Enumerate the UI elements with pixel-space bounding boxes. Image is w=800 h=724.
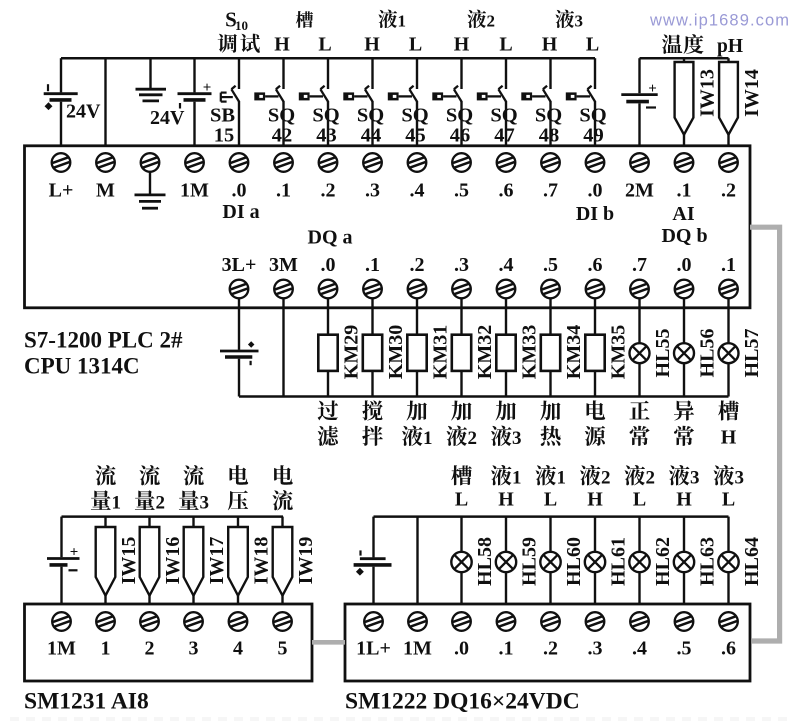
pin label 3 (SM1231) xyxy=(189,638,199,660)
label SQ 42 xyxy=(268,105,295,147)
battery AI sensor supply (2M column) xyxy=(621,58,657,146)
lamp HL58 xyxy=(451,517,471,604)
svg-text:.4: .4 xyxy=(632,638,647,660)
wire M column xyxy=(104,58,106,146)
label S7-1200 PLC 2# xyxy=(24,328,183,353)
pin label .3 (SM1222) xyxy=(588,638,603,660)
pin label .4 (row2) xyxy=(499,254,514,276)
svg-text:H: H xyxy=(587,489,603,511)
svg-text:CPU 1314C: CPU 1314C xyxy=(24,354,140,379)
svg-text:www.ip1689.com: www.ip1689.com xyxy=(649,12,790,30)
svg-text:.7: .7 xyxy=(632,254,647,276)
svg-text:HL62: HL62 xyxy=(652,537,674,586)
svg-text:IW17: IW17 xyxy=(206,537,228,585)
contactor coil KM31 xyxy=(407,298,426,396)
battery 24V (left) xyxy=(44,58,78,146)
svg-text:H: H xyxy=(498,489,514,511)
label DQ b xyxy=(661,225,707,247)
label DI a xyxy=(222,201,259,223)
svg-text:47: 47 xyxy=(494,125,515,147)
svg-text:2: 2 xyxy=(467,428,477,449)
label 24V (left battery) xyxy=(66,101,101,123)
terminal .5 (row1) xyxy=(452,153,471,172)
svg-text:.7: .7 xyxy=(543,180,558,202)
svg-text:DQ a: DQ a xyxy=(308,227,353,249)
svg-text:2: 2 xyxy=(645,467,655,488)
level label 槽L xyxy=(451,465,472,510)
pin label .6 xyxy=(499,180,514,202)
svg-text:1: 1 xyxy=(512,467,522,488)
terminal .3 (row1) xyxy=(363,153,382,172)
label IW19 xyxy=(295,537,317,585)
svg-text:.1: .1 xyxy=(499,638,514,660)
contactor coil KM29 xyxy=(318,298,337,396)
svg-text:H: H xyxy=(274,34,290,56)
limit switch SQ49 xyxy=(566,58,595,146)
svg-text:HL60: HL60 xyxy=(563,537,585,586)
function label 搅拌 xyxy=(362,400,383,446)
svg-text:48: 48 xyxy=(539,125,560,147)
wire 1M column (SM1222) xyxy=(416,517,418,604)
svg-text:45: 45 xyxy=(405,125,426,147)
level label 液2H xyxy=(580,465,611,511)
contactor coil KM32 xyxy=(452,298,471,396)
svg-text:1M: 1M xyxy=(180,180,209,202)
svg-text:.4: .4 xyxy=(410,180,425,202)
label HL61 xyxy=(608,537,630,586)
terminal 1M (SM1231) xyxy=(52,612,71,631)
svg-text:SQ: SQ xyxy=(312,105,339,127)
function label 加热 xyxy=(540,401,561,446)
svg-text:SM1231 AI8: SM1231 AI8 xyxy=(24,689,149,715)
pin label .0 xyxy=(232,180,247,202)
label DI b xyxy=(576,203,614,225)
svg-text:.2: .2 xyxy=(543,638,558,660)
svg-text:H: H xyxy=(542,34,558,56)
svg-text:.5: .5 xyxy=(677,638,692,660)
svg-text:.0: .0 xyxy=(232,180,247,202)
sensor IW19 xyxy=(273,517,293,604)
sensor IW17 xyxy=(184,517,204,604)
terminal .7 (row1) xyxy=(541,153,560,172)
svg-text:1L+: 1L+ xyxy=(356,638,391,660)
pin label .0 (row2) xyxy=(321,254,336,276)
svg-text:SQ: SQ xyxy=(268,105,295,127)
contactor coil KM33 xyxy=(496,298,515,396)
battery DQ supply (3L+ column) xyxy=(220,298,259,396)
svg-text:.6: .6 xyxy=(499,180,514,202)
lamp HL55 xyxy=(630,298,650,396)
svg-text:1: 1 xyxy=(111,492,121,513)
svg-text:DQ b: DQ b xyxy=(661,225,707,247)
svg-text:KM35: KM35 xyxy=(608,325,630,379)
svg-text:HL58: HL58 xyxy=(474,537,496,586)
svg-text:HL57: HL57 xyxy=(741,329,763,378)
svg-text:42: 42 xyxy=(272,125,293,147)
label KM32 xyxy=(474,325,496,379)
svg-text:IW13: IW13 xyxy=(697,69,719,117)
svg-text:SQ: SQ xyxy=(490,105,517,127)
svg-text:3: 3 xyxy=(734,467,744,488)
pin label .4 xyxy=(410,180,425,202)
svg-text:H: H xyxy=(721,426,737,448)
pin label .7 xyxy=(543,180,558,202)
sensor IW15 xyxy=(96,517,116,604)
label 液1 H L xyxy=(364,10,422,56)
label 电流 xyxy=(272,465,292,510)
function label 电源 xyxy=(585,400,605,446)
svg-text:HL59: HL59 xyxy=(519,537,541,586)
pin label 1M (SM1231) xyxy=(47,638,76,660)
pin label .5 (SM1222) xyxy=(677,638,692,660)
label 流量1 xyxy=(91,465,121,513)
svg-text:IW18: IW18 xyxy=(251,537,273,585)
terminal .0 (row1) xyxy=(230,153,249,172)
svg-text:.3: .3 xyxy=(588,638,603,660)
pin label .1 xyxy=(677,180,692,202)
label 液2 H L xyxy=(454,10,513,56)
svg-text:.1: .1 xyxy=(276,180,291,202)
label SM1231 AI8 xyxy=(24,689,149,715)
pin label .1 (row2) xyxy=(721,254,736,276)
svg-text:3: 3 xyxy=(199,492,209,513)
battery AI supply (SM1231) xyxy=(47,517,80,604)
svg-text:S7-1200 PLC 2#: S7-1200 PLC 2# xyxy=(24,328,183,353)
svg-text:HL61: HL61 xyxy=(608,537,630,586)
sensor IW14 (pH) xyxy=(719,58,738,146)
ground symbol (PE terminal) xyxy=(135,172,166,208)
terminal 1L+ (SM1222) xyxy=(364,612,383,631)
battery 24V (middle, earth-style symbol) xyxy=(136,58,167,101)
svg-text:KM30: KM30 xyxy=(385,325,407,379)
svg-text:L: L xyxy=(499,34,512,56)
svg-text:3: 3 xyxy=(690,467,700,488)
wire top supply bus xyxy=(61,57,595,60)
label 温度 pH xyxy=(662,34,743,57)
label DQ a xyxy=(308,227,353,249)
lamp HL62 xyxy=(629,517,649,604)
svg-text:.5: .5 xyxy=(543,254,558,276)
wire sensor supply bus xyxy=(640,57,729,60)
label SQ 47 xyxy=(490,105,517,147)
svg-text:1M: 1M xyxy=(47,638,76,660)
svg-text:HL56: HL56 xyxy=(697,329,719,378)
terminal 1M (row1) xyxy=(185,153,204,172)
terminal 2M (row1) xyxy=(630,153,649,172)
svg-text:L: L xyxy=(722,489,735,511)
svg-text:L: L xyxy=(586,34,599,56)
level label 液3L xyxy=(713,465,743,511)
label 电压 xyxy=(228,465,248,510)
label IW17 xyxy=(206,537,228,585)
svg-text:L: L xyxy=(409,34,422,56)
terminal .7 (row2) xyxy=(630,280,649,299)
label IW15 xyxy=(118,537,140,585)
lamp HL56 xyxy=(674,298,694,396)
limit switch SQ48 xyxy=(521,58,550,146)
svg-text:+: + xyxy=(70,545,79,561)
battery lamp supply (SM1222) xyxy=(354,517,392,604)
wire 3M to bus xyxy=(282,298,284,396)
label IW18 xyxy=(251,537,273,585)
pin label .0 xyxy=(588,180,603,202)
svg-text:HL55: HL55 xyxy=(652,329,674,378)
terminal .1 (row1) xyxy=(675,153,694,172)
pin label .2 (row2) xyxy=(410,254,425,276)
svg-text:3L+: 3L+ xyxy=(222,254,257,276)
svg-text:SM1222 DQ16×24VDC: SM1222 DQ16×24VDC xyxy=(345,689,580,715)
cable SM1231 to SM1222 (gray) xyxy=(312,640,345,645)
svg-text:KM32: KM32 xyxy=(474,325,496,379)
svg-text:.1: .1 xyxy=(721,254,736,276)
level label 液2L xyxy=(624,465,654,511)
terminal M (row1) xyxy=(96,153,115,172)
label IW16 xyxy=(162,537,184,585)
svg-text:.6: .6 xyxy=(588,254,603,276)
label HL60 xyxy=(563,537,585,586)
pin label .2 xyxy=(321,180,336,202)
svg-text:1M: 1M xyxy=(403,638,432,660)
pin label .5 (row2) xyxy=(543,254,558,276)
terminal 2 (SM1231) xyxy=(140,612,159,631)
label HL59 xyxy=(519,537,541,586)
label SQ 43 xyxy=(312,105,339,147)
svg-text:.5: .5 xyxy=(454,180,469,202)
terminal .1 (SM1222) xyxy=(497,612,516,631)
svg-text:HL64: HL64 xyxy=(741,537,763,586)
svg-text:pH: pH xyxy=(717,36,743,57)
label HL63 xyxy=(697,537,719,586)
label KM29 xyxy=(341,325,363,379)
svg-text:1: 1 xyxy=(556,467,566,488)
svg-text:KM29: KM29 xyxy=(341,325,363,379)
svg-text:24V: 24V xyxy=(150,107,185,129)
label HL62 xyxy=(652,537,674,586)
pin label 1L+ (SM1222) xyxy=(356,638,391,660)
level label 液1L xyxy=(535,465,565,511)
svg-text:2: 2 xyxy=(487,11,496,30)
pin label .1 (SM1222) xyxy=(499,638,514,660)
function label 加液1 xyxy=(402,401,433,449)
svg-text:.6: .6 xyxy=(721,638,736,660)
function label 正常 xyxy=(629,401,649,446)
limit switch SQ43 xyxy=(299,58,328,146)
label 流量2 xyxy=(135,465,165,513)
pin label .1 xyxy=(276,180,291,202)
lamp HL64 xyxy=(718,517,738,604)
terminal .5 (row2) xyxy=(541,280,560,299)
svg-text:+: + xyxy=(203,80,212,96)
pin label 2M xyxy=(625,180,654,202)
terminal L+ (row1) xyxy=(52,153,71,172)
lamp HL60 xyxy=(540,517,560,604)
terminal .1 (row2) xyxy=(719,280,738,299)
svg-text:L: L xyxy=(318,34,331,56)
label AI xyxy=(672,203,694,225)
svg-text:.3: .3 xyxy=(454,254,469,276)
label HL57 xyxy=(741,329,763,378)
svg-text:.0: .0 xyxy=(588,180,603,202)
svg-text:M: M xyxy=(96,180,115,202)
svg-text:IW15: IW15 xyxy=(118,537,140,585)
label 24V (middle) xyxy=(150,107,185,129)
svg-text:3M: 3M xyxy=(269,254,298,276)
pin label .6 (row2) xyxy=(588,254,603,276)
svg-text:1: 1 xyxy=(101,638,111,660)
terminal .3 (row2) xyxy=(452,280,471,299)
svg-text:.0: .0 xyxy=(321,254,336,276)
terminal .6 (SM1222) xyxy=(719,612,738,631)
PLC module S7-1200 CPU box xyxy=(25,146,751,308)
svg-text:15: 15 xyxy=(214,125,235,147)
svg-text:.0: .0 xyxy=(677,254,692,276)
scan artifact row xyxy=(10,717,790,721)
svg-text:SQ: SQ xyxy=(446,105,473,127)
terminal .2 (SM1222) xyxy=(541,612,560,631)
label 槽 H L xyxy=(274,11,331,55)
terminal .4 (SM1222) xyxy=(630,612,649,631)
svg-text:SQ: SQ xyxy=(535,105,562,127)
label SQ 44 xyxy=(357,105,384,147)
function label 加液3 xyxy=(491,401,522,449)
svg-text:46: 46 xyxy=(450,125,471,147)
svg-text:.3: .3 xyxy=(365,180,380,202)
svg-text:KM34: KM34 xyxy=(563,325,585,379)
svg-text:AI: AI xyxy=(672,203,694,225)
label HL58 xyxy=(474,537,496,586)
svg-text:H: H xyxy=(454,34,470,56)
terminal 1 (SM1231) xyxy=(96,612,115,631)
svg-text:.2: .2 xyxy=(721,180,736,202)
sensor IW18 xyxy=(228,517,248,604)
level label 液3H xyxy=(669,465,700,511)
svg-text:H: H xyxy=(364,34,380,56)
lamp HL63 xyxy=(674,517,694,604)
pin label .3 xyxy=(365,180,380,202)
watermark www.ip1689.com xyxy=(649,12,790,30)
pin label 3M (row2) xyxy=(269,254,298,276)
svg-text:.0: .0 xyxy=(454,638,469,660)
svg-text:SB: SB xyxy=(210,105,235,127)
sensor IW13 (temperature) xyxy=(675,58,694,146)
pin label .0 (row2) xyxy=(677,254,692,276)
sensor IW16 xyxy=(140,517,160,604)
level label 液1H xyxy=(491,465,522,511)
contactor coil KM35 xyxy=(585,298,604,396)
lamp HL59 xyxy=(496,517,516,604)
pin label .5 xyxy=(454,180,469,202)
terminal .4 (row2) xyxy=(497,280,516,299)
svg-text:2M: 2M xyxy=(625,180,654,202)
svg-text:5: 5 xyxy=(278,638,288,660)
function label 加液2 xyxy=(446,401,476,449)
label 液3 H L xyxy=(542,10,599,56)
svg-text:.1: .1 xyxy=(677,180,692,202)
label KM31 xyxy=(430,325,452,379)
svg-text:1: 1 xyxy=(423,428,433,449)
svg-text:.1: .1 xyxy=(365,254,380,276)
svg-text:3: 3 xyxy=(189,638,199,660)
svg-text:3: 3 xyxy=(575,11,584,30)
terminal .5 (SM1222) xyxy=(675,612,694,631)
contactor coil KM34 xyxy=(541,298,560,396)
label HL56 xyxy=(697,329,719,378)
label SQ 46 xyxy=(446,105,473,147)
terminal .1 (row1) xyxy=(274,153,293,172)
label 流量3 xyxy=(179,465,209,513)
terminal .6 (row2) xyxy=(586,280,605,299)
label SQ 48 xyxy=(535,105,562,147)
battery SB supply (1M column) xyxy=(178,58,212,146)
pin label 5 (SM1231) xyxy=(278,638,288,660)
pin label .7 (row2) xyxy=(632,254,647,276)
pin label .2 xyxy=(721,180,736,202)
svg-text:.2: .2 xyxy=(321,180,336,202)
svg-text:H: H xyxy=(676,489,692,511)
terminal .2 (row1) xyxy=(719,153,738,172)
terminal 3M (row2) xyxy=(274,280,293,299)
label IW13 xyxy=(697,69,719,117)
svg-text:49: 49 xyxy=(583,125,604,147)
svg-text:43: 43 xyxy=(316,125,337,147)
label KM33 xyxy=(519,325,541,379)
svg-text:3: 3 xyxy=(512,428,522,449)
pin label .0 (SM1222) xyxy=(454,638,469,660)
svg-text:SQ: SQ xyxy=(401,105,428,127)
pin label 1M xyxy=(180,180,209,202)
pin label .2 (SM1222) xyxy=(543,638,558,660)
terminal 4 (SM1231) xyxy=(229,612,248,631)
svg-text:L: L xyxy=(455,489,468,511)
label SQ 49 xyxy=(579,105,606,147)
svg-text:.2: .2 xyxy=(410,254,425,276)
limit switch SQ45 xyxy=(388,58,417,146)
label SB 15 xyxy=(210,105,235,147)
svg-text:IW14: IW14 xyxy=(741,69,763,117)
terminal .6 (row1) xyxy=(497,153,516,172)
svg-text:24V: 24V xyxy=(66,101,101,123)
terminal .0 (row2) xyxy=(675,280,694,299)
label KM35 xyxy=(608,325,630,379)
svg-text:KM31: KM31 xyxy=(430,325,452,379)
label CPU 1314C xyxy=(24,354,140,379)
svg-text:HL63: HL63 xyxy=(697,537,719,586)
svg-text:SQ: SQ xyxy=(357,105,384,127)
label SQ 45 xyxy=(401,105,428,147)
svg-text:2: 2 xyxy=(601,467,611,488)
svg-text:+: + xyxy=(648,81,657,97)
pin label .4 (SM1222) xyxy=(632,638,647,660)
function label 槽H xyxy=(718,400,739,448)
pushbutton switch SB15 xyxy=(221,58,239,146)
pin label 1 (SM1231) xyxy=(101,638,111,660)
svg-text:10: 10 xyxy=(235,18,248,33)
limit switch SQ44 xyxy=(343,58,372,146)
pin label M xyxy=(96,180,115,202)
function label 异常 xyxy=(674,400,694,446)
cable PLC to SM1222 (gray) xyxy=(750,227,780,641)
limit switch SQ47 xyxy=(477,58,506,146)
lamp HL57 xyxy=(719,298,739,396)
lamp HL61 xyxy=(585,517,605,604)
wire AI supply bus (SM1231) xyxy=(62,515,284,518)
label S10 调试 xyxy=(218,8,260,53)
svg-text:L: L xyxy=(633,489,646,511)
limit switch SQ42 xyxy=(254,58,283,146)
svg-text:2: 2 xyxy=(145,638,155,660)
label HL64 xyxy=(741,537,763,586)
contactor coil KM30 xyxy=(363,298,382,396)
